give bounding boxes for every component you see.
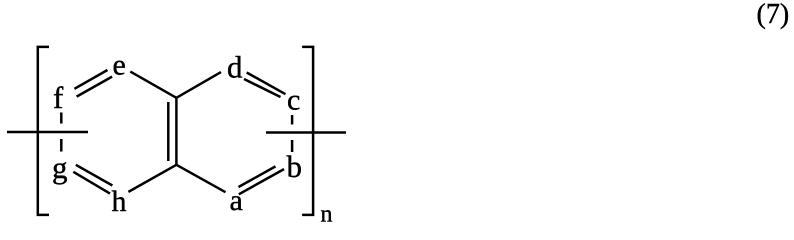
bond a-cb bbox=[176, 165, 225, 192]
svg-text:g: g bbox=[52, 150, 68, 185]
svg-text:n: n bbox=[321, 202, 333, 225]
svg-text:d: d bbox=[227, 50, 243, 85]
svg-text:h: h bbox=[112, 185, 127, 218]
bond f-e inner bbox=[77, 77, 113, 97]
bond d-c main bbox=[247, 73, 286, 95]
bond central main bbox=[175, 98, 178, 165]
bond g-f dashed bbox=[60, 113, 63, 152]
svg-text:b: b bbox=[287, 149, 303, 184]
bond central inner bbox=[167, 102, 170, 161]
bond ct-d bbox=[176, 72, 221, 98]
bond c-b dashed bbox=[291, 115, 294, 152]
bond b-a inner bbox=[239, 166, 276, 187]
wire right polymer bond bbox=[266, 131, 346, 134]
bond f-e main bbox=[74, 70, 107, 89]
bond cb-h bbox=[128, 165, 176, 192]
svg-text:f: f bbox=[53, 80, 64, 115]
bond e-ct bbox=[130, 72, 176, 98]
bond b-a main bbox=[239, 169, 284, 194]
left bracket bbox=[38, 47, 49, 215]
svg-text:c: c bbox=[287, 83, 300, 116]
bond h-g main bbox=[73, 172, 110, 194]
svg-text:(7): (7) bbox=[757, 0, 790, 30]
wire left polymer bond bbox=[7, 131, 88, 134]
right bracket bbox=[302, 47, 313, 215]
svg-text:e: e bbox=[113, 48, 126, 81]
bond h-g inner bbox=[76, 165, 113, 186]
svg-text:a: a bbox=[230, 184, 243, 217]
bond d-c inner bbox=[244, 79, 281, 97]
